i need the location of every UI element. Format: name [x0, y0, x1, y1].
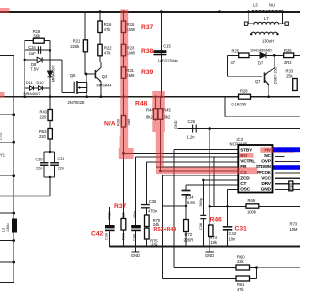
svg-text:100k: 100k	[247, 210, 257, 215]
svg-text:1uF/275Vac: 1uF/275Vac	[158, 59, 178, 63]
svg-text:10M: 10M	[290, 227, 299, 232]
svg-text:VCTRL: VCTRL	[240, 159, 255, 165]
svg-text:OSC: OSC	[240, 187, 250, 193]
svg-text:Q4: Q4	[102, 74, 108, 79]
svg-text:R73: R73	[290, 222, 298, 227]
svg-text:DRV: DRV	[261, 181, 271, 187]
svg-text:62k: 62k	[121, 212, 125, 218]
svg-text:STBY: STBY	[240, 147, 253, 153]
svg-text:47: 47	[231, 60, 236, 65]
svg-text:Q6: Q6	[70, 73, 76, 78]
svg-text:10k: 10k	[211, 240, 219, 245]
svg-text:R26: R26	[284, 48, 292, 53]
svg-text:130u: 130u	[6, 224, 10, 232]
svg-text:7.5V: 7.5V	[30, 67, 39, 72]
svg-text:NC: NC	[264, 153, 271, 159]
svg-text:47k: 47k	[104, 51, 112, 56]
svg-text:C38: C38	[199, 223, 203, 230]
svg-text:R25: R25	[232, 49, 240, 54]
svg-text:43k: 43k	[151, 243, 159, 248]
svg-text:R21: R21	[73, 39, 81, 44]
svg-text:VCC: VCC	[261, 175, 271, 181]
svg-text:ZCD: ZCD	[240, 175, 250, 181]
svg-text:C30: C30	[36, 158, 43, 162]
svg-text:MPSA44: MPSA44	[97, 83, 112, 87]
svg-text:R46: R46	[210, 217, 223, 224]
svg-text:22n: 22n	[36, 167, 42, 171]
svg-text:C39: C39	[105, 233, 109, 240]
svg-text:C40: C40	[133, 234, 137, 241]
svg-text:C34: C34	[28, 45, 36, 50]
svg-text:220: 220	[40, 115, 48, 120]
svg-text:6.8n: 6.8n	[187, 200, 196, 205]
svg-text:R37: R37	[141, 24, 154, 31]
svg-text:R37: R37	[114, 203, 127, 210]
svg-text:1.2n: 1.2n	[187, 135, 196, 140]
svg-text:R28: R28	[240, 89, 248, 94]
svg-text:NCP1605: NCP1605	[230, 142, 248, 147]
svg-text:47k: 47k	[237, 287, 245, 292]
svg-text:56k: 56k	[34, 33, 42, 38]
svg-text:MRA4007: MRA4007	[52, 65, 56, 82]
svg-text:220: 220	[39, 134, 47, 139]
svg-text:R72: R72	[185, 232, 193, 237]
svg-text:C36: C36	[149, 199, 157, 204]
svg-text:1N4148SMD: 1N4148SMD	[250, 49, 272, 53]
svg-text:L7: L7	[264, 16, 269, 21]
svg-text:1uF: 1uF	[29, 51, 37, 56]
svg-text:GND: GND	[174, 120, 178, 129]
svg-text:R69: R69	[248, 198, 256, 203]
svg-text:2R2: 2R2	[284, 60, 292, 65]
svg-text:10n: 10n	[229, 237, 237, 242]
svg-text:Y1: Y1	[0, 153, 6, 158]
svg-text:15k: 15k	[286, 74, 294, 79]
svg-text:C31: C31	[235, 225, 248, 232]
svg-text:R65: R65	[289, 183, 293, 190]
svg-text:GND: GND	[205, 253, 214, 258]
svg-text:R71: R71	[121, 233, 125, 240]
svg-text:L2: L2	[2, 228, 6, 232]
svg-text:130uH: 130uH	[262, 39, 274, 44]
svg-text:R30: R30	[117, 119, 121, 126]
svg-text:Q7: Q7	[255, 79, 261, 84]
svg-text:GND: GND	[131, 253, 140, 258]
svg-text:220R: 220R	[184, 238, 194, 243]
svg-text:D087-15D: D087-15D	[274, 66, 278, 84]
svg-text:N/A: N/A	[104, 121, 116, 128]
svg-text:100n: 100n	[133, 211, 137, 219]
svg-text:0.1R/2W: 0.1R/2W	[232, 103, 247, 107]
svg-text:CY2: CY2	[0, 133, 3, 140]
svg-text:560p: 560p	[199, 198, 203, 206]
svg-text:470n: 470n	[148, 208, 158, 213]
svg-text:C34: C34	[186, 195, 194, 200]
svg-text:CT: CT	[240, 181, 246, 187]
svg-text:D11: D11	[26, 81, 33, 85]
svg-text:RS2+R49: RS2+R49	[154, 227, 177, 233]
svg-text:2N7002E: 2N7002E	[68, 100, 85, 105]
svg-text:D10: D10	[37, 81, 44, 85]
svg-text:NU: NU	[269, 3, 275, 8]
svg-text:GND: GND	[261, 187, 272, 193]
svg-text:D7: D7	[258, 61, 264, 66]
svg-text:C15: C15	[163, 44, 171, 49]
svg-text:R48: R48	[135, 101, 148, 108]
svg-text:22n: 22n	[58, 167, 64, 171]
svg-text:8k2: 8k2	[146, 114, 153, 119]
svg-text:C31: C31	[58, 157, 65, 161]
svg-text:R38: R38	[141, 48, 154, 55]
svg-text:L3: L3	[253, 3, 258, 8]
svg-text:C26: C26	[188, 119, 196, 124]
svg-text:22k: 22k	[237, 259, 245, 264]
svg-text:47k: 47k	[104, 27, 112, 32]
svg-text:470n: 470n	[108, 212, 112, 220]
svg-text:MRA4007: MRA4007	[24, 92, 41, 96]
svg-text:220k: 220k	[70, 44, 80, 49]
svg-text:STDWN: STDWN	[256, 164, 271, 169]
svg-text:C42: C42	[91, 230, 104, 237]
svg-text:PFCOK: PFCOK	[257, 170, 272, 175]
svg-text:R39: R39	[141, 69, 154, 76]
